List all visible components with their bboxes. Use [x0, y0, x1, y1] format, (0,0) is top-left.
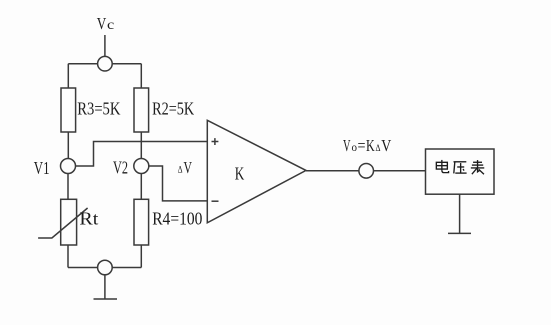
svg-text:V2: V2 — [113, 158, 128, 178]
wire right drop to R2 — [140, 64, 142, 88]
svg-text:R2=5K: R2=5K — [152, 99, 194, 119]
wire op-amp output — [306, 170, 359, 172]
voltmeter box — [426, 149, 495, 194]
ground bar left — [94, 298, 118, 300]
svg-text:V: V — [381, 136, 392, 155]
ground bar right — [448, 232, 471, 234]
svg-text:Δ: Δ — [376, 143, 381, 153]
wire bottom rail — [68, 267, 141, 269]
op-amp - pin mark — [212, 200, 219, 202]
wire V2 to op-amp - input — [148, 166, 207, 201]
wire R3 to node V1 — [67, 132, 69, 159]
thermistor Rt body — [61, 199, 77, 245]
char ya (pressure) — [453, 162, 466, 174]
wire Rt to bottom rail — [67, 245, 69, 268]
resistor R4 body — [134, 199, 149, 245]
wire V1 to op-amp + input — [75, 142, 207, 167]
wire top rail — [68, 63, 141, 65]
node Vc terminal circle — [98, 56, 113, 71]
svg-text:Δ: Δ — [178, 164, 183, 174]
svg-text:V: V — [184, 158, 193, 177]
char biao (meter) — [471, 160, 484, 174]
wire V2 to R4 — [140, 173, 142, 199]
wire ground stem right — [459, 194, 461, 233]
op-amp + pin mark — [212, 138, 219, 145]
svg-text:R4=100: R4=100 — [152, 209, 202, 229]
wire R2 to node V2 — [140, 132, 142, 159]
svg-text:K: K — [366, 136, 375, 155]
svg-text:Rt: Rt — [79, 209, 98, 229]
node V2 circle — [134, 159, 149, 174]
svg-text:R3=5K: R3=5K — [77, 99, 120, 119]
node output terminal circle — [359, 164, 374, 179]
node bottom terminal circle — [98, 260, 113, 275]
svg-text:o: o — [352, 140, 358, 154]
node V1 circle — [61, 159, 76, 174]
resistor R2 body — [134, 88, 149, 132]
svg-text:V1: V1 — [34, 158, 50, 178]
svg-text:=: = — [358, 136, 366, 155]
svg-text:K: K — [235, 164, 245, 184]
resistor R3 body — [61, 88, 76, 132]
wire ground stem left — [104, 275, 106, 299]
svg-text:c: c — [107, 18, 114, 33]
wire left drop to R3 — [67, 64, 69, 88]
thermistor Rt diagonal stroke — [38, 208, 88, 238]
wire R4 to bottom rail — [140, 245, 142, 268]
op-amp U1 triangle — [207, 120, 306, 223]
char dian (electric) — [436, 160, 448, 173]
svg-text:V: V — [97, 14, 107, 33]
wire Vc stem — [104, 35, 106, 57]
wire output to voltmeter — [374, 170, 426, 172]
svg-text:V: V — [343, 136, 351, 155]
label voltmeter Chinese text dian-ya-biao (drawn strokes) — [436, 160, 484, 174]
wire V1 to Rt — [67, 173, 69, 199]
